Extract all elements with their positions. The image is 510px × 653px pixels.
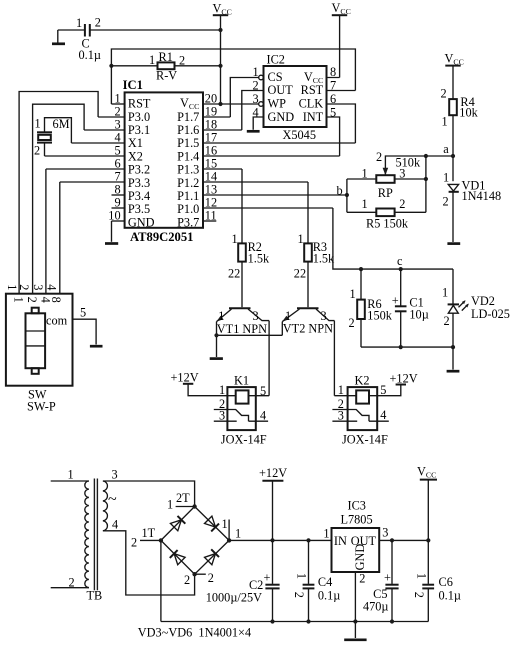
svg-text:3: 3: [31, 284, 45, 290]
svg-text:+: +: [384, 571, 391, 585]
IC2 pin names right: [299, 70, 324, 124]
svg-text:1: 1: [442, 115, 448, 129]
node junction R1-left / RST vertical: [109, 64, 113, 68]
diode bridge VD3-VD6 diamond: [161, 507, 229, 575]
svg-text:P3.5: P3.5: [128, 202, 150, 216]
svg-text:3: 3: [219, 408, 225, 422]
svg-text:1: 1: [362, 197, 368, 211]
svg-text:P3.4: P3.4: [128, 189, 150, 203]
wire IC1 P1.7 pin19 to IC2 CS: [230, 78, 258, 118]
svg-text:150k: 150k: [367, 309, 392, 323]
diode VD3 (left-top edge, arrow to top corner): [170, 516, 185, 531]
svg-text:11: 11: [205, 209, 217, 223]
relay K1 contacts: [214, 410, 268, 422]
node junction C2 bottom: [270, 619, 274, 623]
op-amp substitute: microcontroller IC1 AT89C2051 box: [125, 92, 203, 227]
ground (left of capacitor C): [52, 30, 65, 44]
bridge right tick + labels 1 / 1: [222, 517, 242, 541]
node junction C2 top: [270, 538, 274, 542]
svg-text:1: 1: [415, 573, 429, 579]
svg-text:5: 5: [80, 306, 86, 320]
svg-text:R5 150k: R5 150k: [366, 216, 409, 230]
svg-text:c: c: [397, 254, 403, 268]
svg-text:10µ: 10µ: [409, 308, 428, 322]
relay K2 coil: [356, 390, 369, 403]
svg-text:0.1µ: 0.1µ: [318, 588, 340, 602]
wire SW line2 to IC1 P3.1 pin3: [33, 104, 85, 294]
svg-text:+12V: +12V: [171, 371, 199, 385]
svg-text:2: 2: [441, 87, 447, 101]
wire SW com pin5 to ground: [73, 319, 97, 344]
svg-text:GND: GND: [128, 215, 155, 229]
IC2 GND pin4 stub and ground: [247, 117, 264, 131]
svg-text:16: 16: [205, 144, 217, 158]
node junction C4 top: [306, 538, 310, 542]
svg-text:RST: RST: [301, 83, 324, 97]
IC1 left pin numbers: [108, 92, 120, 223]
node a: [443, 142, 455, 158]
svg-text:C4: C4: [318, 575, 332, 589]
svg-text:JOX-14F: JOX-14F: [342, 432, 388, 446]
node b: [337, 179, 350, 212]
svg-text:+: +: [264, 571, 271, 585]
svg-text:1: 1: [442, 286, 448, 300]
svg-text:3: 3: [399, 167, 405, 181]
node junction C5 top: [390, 538, 394, 542]
svg-text:2: 2: [114, 105, 120, 119]
svg-text:1: 1: [338, 383, 344, 397]
svg-text:2: 2: [95, 16, 101, 30]
svg-text:2: 2: [184, 573, 190, 587]
capacitor C6 0.1u: [412, 540, 461, 621]
svg-text:a: a: [443, 142, 449, 156]
node junction VD2 bottom: [451, 345, 455, 349]
svg-text:1: 1: [114, 92, 120, 106]
svg-text:8: 8: [49, 297, 63, 303]
svg-text:R-V: R-V: [156, 69, 177, 83]
svg-text:RST: RST: [128, 97, 151, 111]
wire VT1 collector down to K1 pin5: [268, 321, 270, 396]
svg-text:1000µ/25V: 1000µ/25V: [206, 591, 262, 605]
svg-text:0.1µ: 0.1µ: [439, 588, 461, 602]
svg-text:1: 1: [232, 232, 238, 246]
svg-text:6M: 6M: [53, 117, 70, 131]
wire SW line4 to IC1 P3.3 pin7: [59, 182, 61, 294]
svg-text:1: 1: [12, 297, 26, 303]
svg-text:2: 2: [208, 571, 214, 585]
svg-text:470µ: 470µ: [363, 599, 389, 613]
wire RST net: IC1 pin1 up and across to IC2 RST: [111, 49, 355, 104]
svg-text:GND: GND: [353, 544, 367, 571]
wire IC3 GND down to rail and ground: [354, 572, 356, 638]
svg-text:VT1 NPN: VT1 NPN: [217, 322, 267, 336]
relay K2 JOX-14F box: [348, 387, 378, 430]
svg-text:1: 1: [362, 167, 368, 181]
ground (node c group): [447, 347, 460, 371]
svg-text:+12V: +12V: [259, 466, 287, 480]
svg-text:com: com: [46, 314, 68, 328]
ground (IC1 pin10 GND): [105, 221, 118, 244]
svg-text:19: 19: [205, 105, 217, 119]
transistor VT2 NPN: [282, 308, 334, 335]
svg-text:P3.1: P3.1: [128, 123, 150, 137]
power Vcc (PSU output): [417, 465, 437, 541]
wire IC2 RST pin7 stub: [327, 90, 356, 92]
IC2 pin numbers: [253, 65, 259, 119]
svg-text:P1.2: P1.2: [177, 176, 199, 190]
capacitor C2 1000u/25V: [206, 540, 280, 621]
svg-text:VD3~VD6 1N4001×4: VD3~VD6 1N4001×4: [138, 625, 251, 639]
svg-text:K1: K1: [234, 373, 249, 387]
svg-text:1: 1: [350, 287, 356, 301]
svg-text:5: 5: [114, 144, 120, 158]
relay K1 coil: [236, 390, 249, 403]
svg-text:b: b: [337, 183, 343, 197]
power Vcc (over IC2 pin8): [327, 1, 351, 78]
transformer TB core: [94, 479, 97, 591]
svg-text:2: 2: [359, 572, 365, 586]
wire Vcc row to IC2 WP: [221, 103, 259, 105]
node junction pin20 / Vcc rail: [218, 102, 222, 106]
svg-text:2: 2: [444, 314, 450, 328]
svg-text:0.1µ: 0.1µ: [79, 48, 101, 62]
svg-text:P3.7: P3.7: [177, 215, 199, 229]
node junction VT1 emitter: [214, 333, 218, 337]
IC1 left pin names: [128, 97, 155, 230]
K1 pin labels: [219, 383, 266, 423]
node junction C4 bottom: [306, 619, 310, 623]
svg-text:IC2: IC2: [267, 53, 285, 67]
svg-text:2: 2: [131, 536, 137, 550]
svg-text:~: ~: [108, 491, 117, 508]
svg-text:3: 3: [382, 526, 388, 540]
relay K1 JOX-14F box: [227, 387, 255, 430]
svg-text:10: 10: [108, 209, 120, 223]
svg-text:2: 2: [179, 54, 185, 68]
resistor R3 1.5k: [294, 182, 335, 307]
svg-text:LD-025: LD-025: [471, 307, 510, 321]
svg-text:3: 3: [114, 118, 120, 132]
transistor VT1 NPN: [216, 308, 269, 336]
K2 pin labels: [338, 383, 387, 423]
wire VT2 collector down to K2 pin1: [333, 321, 335, 396]
svg-text:20: 20: [205, 92, 217, 106]
svg-text:IN: IN: [334, 534, 347, 548]
wire secondary pin3 to bridge top: [103, 481, 195, 507]
wire bridge left corner down to ground rail: [160, 540, 162, 621]
ground (IC3): [344, 638, 366, 641]
svg-text:1: 1: [219, 383, 225, 397]
bridge corner dots: [192, 504, 196, 508]
node junction C5 bottom: [390, 619, 394, 623]
IC2 pin3 WP inversion bubble: [259, 102, 264, 107]
wire right loop vertical: [425, 156, 427, 212]
svg-text:2: 2: [292, 592, 306, 598]
wire VT1 emitter to ground rail: [216, 322, 218, 357]
svg-text:P1.4: P1.4: [177, 149, 199, 163]
node junction C / Vcc rail: [218, 28, 222, 32]
svg-text:RP: RP: [378, 186, 393, 200]
svg-text:4: 4: [260, 408, 266, 422]
svg-text:C6: C6: [439, 575, 453, 589]
wire SW line1 to IC1 P3.0 pin2: [19, 92, 98, 294]
svg-text:X2: X2: [128, 149, 143, 163]
power Vcc (top, over IC1): [213, 2, 232, 17]
crystal 6M: [34, 117, 71, 158]
relay K2 contacts: [332, 410, 388, 422]
wire K1 coil leads: [227, 395, 269, 397]
svg-text:INT: INT: [303, 110, 324, 124]
svg-text:4: 4: [380, 408, 386, 422]
svg-text:14: 14: [205, 170, 217, 184]
svg-text:X1: X1: [128, 136, 143, 150]
svg-text:9: 9: [114, 196, 120, 210]
ground (VT1/VT2 emitters): [210, 357, 223, 360]
svg-text:1: 1: [76, 16, 82, 30]
power +12V (K2): [377, 372, 418, 396]
potentiometer RP 510k: [347, 150, 453, 200]
svg-text:4: 4: [45, 284, 59, 290]
capacitor C5 470u electrolytic: [363, 540, 399, 621]
resistor R4 10k: [441, 87, 479, 182]
ground (SW com): [90, 345, 103, 348]
LED VD2 LD-025: [442, 269, 510, 347]
svg-text:13: 13: [205, 183, 217, 197]
IC1 left pin stubs 1-10: [45, 104, 125, 221]
transformer TB primary winding: [85, 481, 89, 588]
svg-text:1: 1: [218, 309, 224, 323]
wire PSU ground rail: [161, 621, 428, 623]
IC2 pin1 CS inversion bubble: [259, 75, 264, 80]
bridge top stub + labels 2T / 1: [167, 491, 195, 512]
svg-text:2: 2: [34, 144, 40, 158]
svg-text:R1: R1: [159, 50, 173, 64]
power +12V (PSU): [259, 466, 287, 541]
wire shared emitter rail VT1-VT2: [217, 334, 283, 336]
svg-text:17: 17: [205, 131, 217, 145]
svg-text:2: 2: [412, 592, 426, 598]
svg-text:1: 1: [35, 117, 41, 131]
node junction C1 top: [399, 267, 403, 271]
svg-text:2: 2: [25, 297, 39, 303]
svg-text:2: 2: [399, 197, 405, 211]
diode VD4 (top-right edge, arrow to right corner): [205, 516, 220, 531]
svg-text:12: 12: [205, 196, 217, 210]
wire IC1 P1.0 pin12 down to node c rail: [333, 208, 453, 269]
svg-text:IC3: IC3: [348, 499, 366, 513]
wire Vcc rail down to IC1 pin20: [220, 15, 222, 104]
capacitor C1 10u electrolytic: [392, 269, 429, 347]
diode VD6 (bottom-right edge, arrow to right corner): [205, 549, 220, 564]
svg-text:1: 1: [295, 573, 309, 579]
svg-text:1: 1: [68, 468, 74, 482]
IC3 pin names: [323, 526, 388, 586]
svg-text:1.5k: 1.5k: [313, 251, 335, 265]
svg-text:P3.0: P3.0: [128, 110, 150, 124]
wire +12V output rail: [229, 539, 331, 541]
svg-text:1.5k: 1.5k: [248, 251, 270, 265]
wire SW line3 to IC1 P3.2 pin6: [45, 169, 47, 294]
svg-text:1: 1: [298, 232, 304, 246]
svg-text:GND: GND: [268, 110, 295, 124]
bridge bottom tick + labels 2 / 2: [184, 571, 214, 587]
svg-text:5: 5: [380, 383, 386, 397]
svg-text:2: 2: [17, 284, 31, 290]
svg-text:18: 18: [205, 118, 217, 132]
svg-text:22: 22: [228, 267, 240, 281]
svg-text:10k: 10k: [459, 105, 478, 119]
svg-text:WP: WP: [268, 97, 287, 111]
svg-text:K2: K2: [355, 373, 370, 387]
svg-text:VT2 NPN: VT2 NPN: [283, 322, 333, 336]
svg-text:P1.5: P1.5: [177, 136, 199, 150]
IC1 right pin numbers: [205, 92, 217, 223]
svg-text:P1.3: P1.3: [177, 163, 199, 177]
IC2 pin names left: [268, 70, 295, 124]
SW rotary element: [26, 308, 68, 374]
wire bottom rail under R6 C1 VD2: [361, 346, 453, 348]
svg-text:1T: 1T: [142, 526, 156, 540]
diode VD5 (bottom-left edge, arrow to left corner): [170, 550, 185, 565]
capacitor C 0.1u: [58, 16, 221, 63]
svg-text:4: 4: [114, 131, 120, 145]
svg-text:P1.0: P1.0: [177, 202, 199, 216]
ground (VD1 cathode): [447, 242, 460, 245]
svg-text:SW-P: SW-P: [27, 399, 56, 413]
svg-text:CLK: CLK: [299, 97, 324, 111]
wire VT2 emitter down to rail: [281, 322, 283, 336]
svg-text:1: 1: [235, 527, 241, 541]
wire IC2 CLK pin6 to IC1 P1.5 pin17: [327, 104, 356, 143]
wire IC2 INT pin5 to IC1 P1.4 pin16: [327, 117, 340, 156]
regulator IC3 L7805 box: [332, 528, 380, 572]
power Vcc (right, over R4): [445, 52, 464, 100]
svg-text:P1.6: P1.6: [177, 123, 199, 137]
svg-text:1N4148: 1N4148: [462, 189, 502, 203]
svg-text:1: 1: [222, 517, 228, 531]
resistor R1 (R-V): [111, 50, 220, 83]
svg-text:22: 22: [294, 267, 306, 281]
IC1 right pin names: [177, 96, 199, 230]
wire IC3 OUT rail: [379, 539, 428, 541]
node junction C6 top: [426, 538, 430, 542]
resistor R5 150k: [347, 197, 426, 230]
svg-text:AT89C2051: AT89C2051: [130, 230, 193, 244]
svg-text:2: 2: [349, 316, 355, 330]
svg-text:1: 1: [149, 53, 155, 67]
svg-text:OUT: OUT: [268, 83, 294, 97]
transformer TB labels: [68, 468, 119, 603]
svg-text:TB: TB: [87, 588, 103, 602]
node junction C1 bottom: [399, 345, 403, 349]
svg-text:P3.3: P3.3: [128, 176, 150, 190]
diode VD1 1N4148: [443, 171, 502, 243]
rotated wire labels 1 2 3 4 above SW: [5, 284, 59, 290]
resistor R6 150k: [349, 269, 393, 347]
watchdog IC2 X5045 box: [264, 66, 327, 127]
svg-text:5: 5: [260, 384, 266, 398]
capacitor C4 0.1u: [292, 540, 340, 621]
node junction R6 top: [359, 267, 363, 271]
svg-text:2: 2: [443, 195, 449, 209]
svg-text:7: 7: [114, 170, 120, 184]
svg-text:4: 4: [112, 518, 118, 532]
svg-text:L7805: L7805: [341, 513, 373, 527]
transformer TB secondary winding: [103, 481, 108, 531]
svg-text:P1.1: P1.1: [177, 189, 199, 203]
IC1 right pin stubs 20-11: [203, 104, 355, 221]
svg-text:CS: CS: [268, 70, 283, 84]
svg-text:2: 2: [69, 576, 75, 590]
svg-text:3: 3: [253, 309, 259, 323]
svg-text:2: 2: [376, 150, 382, 164]
resistor R2 1.5k: [228, 169, 270, 307]
wire secondary pin4 to bridge bottom: [103, 531, 195, 595]
svg-text:X5045: X5045: [283, 128, 316, 142]
svg-text:VD2: VD2: [471, 294, 495, 308]
svg-text:15: 15: [205, 157, 217, 171]
wire IC1 P1.6 pin18 to IC2 OUT: [242, 91, 264, 131]
svg-text:P1.7: P1.7: [177, 110, 199, 124]
svg-text:JOX-14F: JOX-14F: [221, 432, 267, 446]
svg-text:3: 3: [112, 468, 118, 482]
transformer TB primary lead 2: [51, 587, 85, 589]
svg-text:P3.2: P3.2: [128, 163, 150, 177]
node junction R1 / Vcc rail: [218, 64, 222, 68]
svg-text:1: 1: [323, 527, 329, 541]
rotated pin labels 1 2 4 8 inside SW: [12, 297, 64, 303]
svg-text:1: 1: [443, 171, 449, 185]
switch SW (SW-P) box: [6, 294, 73, 386]
svg-text:+: +: [392, 294, 399, 308]
svg-text:8: 8: [114, 183, 120, 197]
svg-text:1: 1: [5, 284, 19, 290]
power +12V (K1): [171, 371, 228, 396]
svg-text:2T: 2T: [176, 491, 190, 505]
node junction RP pin3: [424, 177, 428, 181]
svg-text:IC1: IC1: [123, 78, 143, 92]
svg-text:1: 1: [167, 498, 173, 512]
svg-text:6: 6: [114, 157, 120, 171]
svg-text:3: 3: [338, 408, 344, 422]
bridge left stub + labels 1T / 2: [131, 526, 161, 550]
node junction RP wiper rail: [424, 154, 428, 158]
transformer TB primary lead 1: [51, 480, 85, 482]
wire K2 coil leads: [334, 395, 377, 397]
